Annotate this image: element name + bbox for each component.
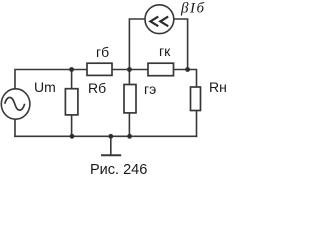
wire current source right lead down to rail bbox=[174, 19, 188, 70]
wire r_e bottom lead bbox=[128, 113, 130, 136]
svg-text:βIб: βIб bbox=[180, 0, 206, 16]
svg-text:Rн: Rн bbox=[209, 79, 227, 95]
resistor Rn (vertical box) bbox=[191, 87, 201, 111]
wire r_e top lead bbox=[128, 70, 130, 85]
svg-text:Рис. 246: Рис. 246 bbox=[90, 162, 147, 178]
node F (bottom rail / r_e) bbox=[127, 134, 132, 139]
node D (bottom rail / Rb) bbox=[70, 134, 75, 139]
wire Rb bottom lead bbox=[71, 115, 73, 136]
resistor r_e (vertical box) bbox=[124, 85, 136, 113]
resistor r_k (horizontal box) bbox=[148, 63, 174, 75]
resistor Rb (vertical box) bbox=[65, 89, 78, 115]
wire top rail segment right of r_k to Rn corner bbox=[174, 70, 197, 88]
current source arrows << bbox=[150, 17, 168, 27]
dependent current source beta*Ib circle bbox=[145, 5, 174, 34]
wire center column up to current source left lead bbox=[129, 19, 145, 70]
wire top-left vertical (source to top rail) bbox=[15, 70, 87, 90]
node E (bottom rail / ground) bbox=[108, 134, 113, 139]
wire source bottom lead bbox=[14, 119, 16, 136]
wire bottom rail bbox=[15, 135, 197, 137]
svg-text:Rб: Rб bbox=[88, 80, 106, 96]
svg-text:гэ: гэ bbox=[144, 81, 156, 97]
svg-text:гк: гк bbox=[159, 43, 171, 59]
wire Rn bottom lead bbox=[196, 111, 198, 137]
svg-text:Um: Um bbox=[34, 79, 56, 95]
AC source Um circle bbox=[1, 89, 30, 119]
ground bbox=[101, 136, 121, 155]
resistor r_b (horizontal box) bbox=[87, 63, 112, 75]
node A (top rail / Rb) bbox=[69, 67, 74, 72]
node C (top rail right) bbox=[185, 67, 190, 72]
node B (top rail center) bbox=[127, 67, 132, 72]
wire top rail segment between r_b and center node bbox=[112, 69, 148, 71]
wire Rb top lead bbox=[71, 70, 73, 89]
AC source sine symbol bbox=[5, 97, 25, 110]
svg-text:гб: гб bbox=[96, 44, 109, 60]
